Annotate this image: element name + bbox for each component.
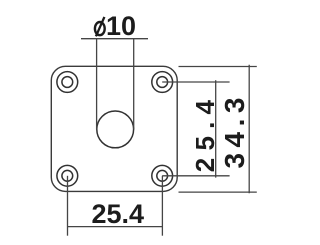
dim line 25.4 vertical [215, 80, 217, 177]
svg-text:34.3: 34.3 [219, 92, 250, 169]
dia10 leader right [133, 39, 135, 130]
plate outline [51, 66, 177, 191]
screw hole BR [152, 165, 173, 186]
ext line bottom 25.4 left (from BL screw) [67, 176, 69, 236]
dia symbol [95, 17, 105, 36]
dim line bottom 25.4 [68, 226, 163, 228]
dia10 leader left [96, 39, 98, 130]
ext line 25.4 bottom (from BR screw) [162, 175, 229, 177]
screw hole TL [57, 72, 78, 93]
dim line 34.3 vertical [248, 65, 250, 194]
center jack hole [97, 111, 134, 148]
dia10 dimension line [81, 38, 148, 40]
svg-text:10: 10 [106, 11, 136, 41]
ext line 34.3 bottom [179, 191, 257, 193]
ext line 34.3 top [179, 66, 257, 68]
screw hole TR [152, 72, 173, 93]
screw hole BL [57, 165, 78, 186]
svg-text:25.4: 25.4 [190, 93, 220, 172]
svg-text:25.4: 25.4 [92, 199, 145, 229]
ext line 25.4 top (from TR screw) [162, 81, 229, 83]
ext line bottom 25.4 right (from BR screw) [161, 176, 163, 236]
